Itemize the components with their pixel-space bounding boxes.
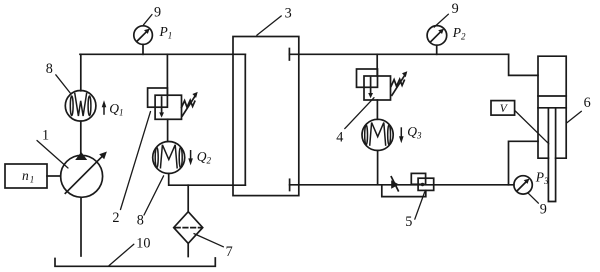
svg-text:5: 5 xyxy=(405,214,412,230)
svg-text:6: 6 xyxy=(584,95,591,111)
svg-text:8: 8 xyxy=(137,213,144,229)
svg-text:1: 1 xyxy=(42,127,49,143)
svg-text:9: 9 xyxy=(540,202,547,218)
svg-text:9: 9 xyxy=(452,1,459,17)
svg-text:7: 7 xyxy=(226,244,233,260)
svg-text:3: 3 xyxy=(285,5,292,21)
svg-text:10: 10 xyxy=(136,235,150,251)
svg-text:9: 9 xyxy=(154,4,161,20)
svg-text:8: 8 xyxy=(46,61,53,77)
svg-text:4: 4 xyxy=(336,130,343,146)
svg-text:2: 2 xyxy=(112,210,119,226)
